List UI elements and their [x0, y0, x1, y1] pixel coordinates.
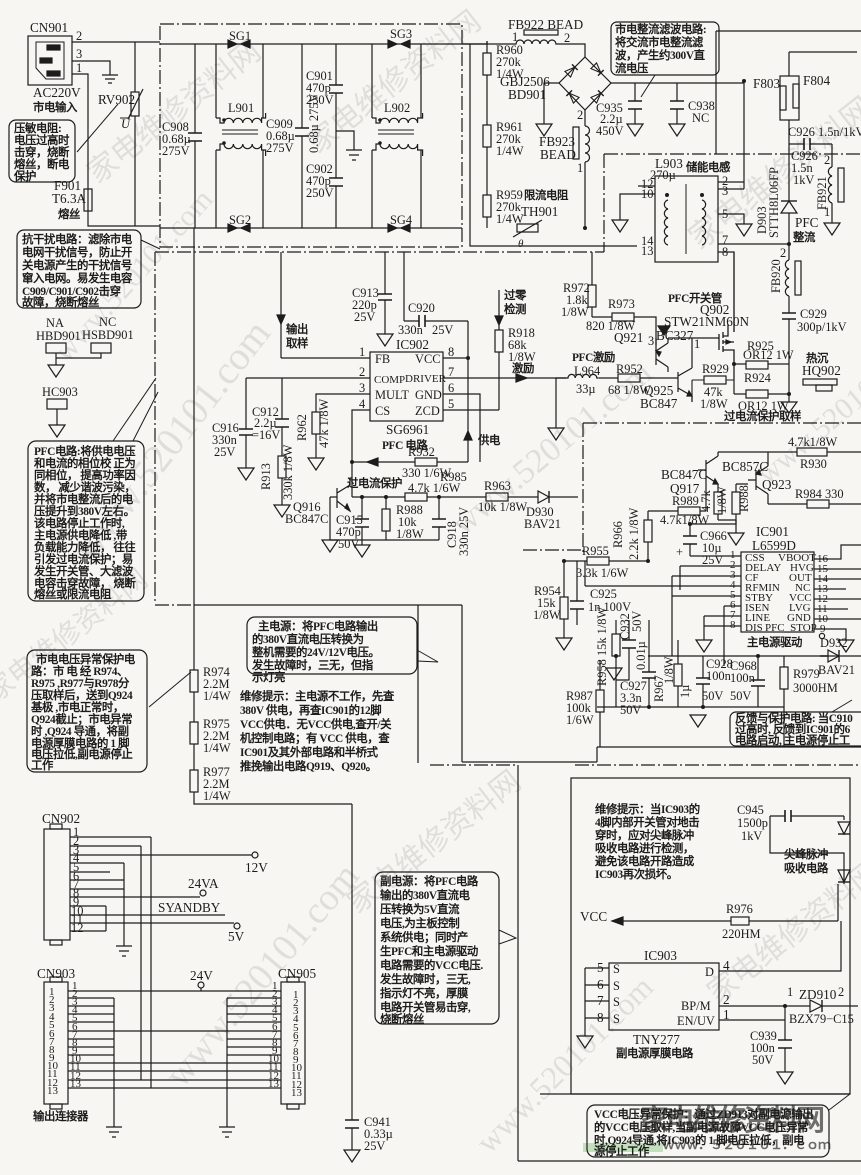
resistor R973	[586, 297, 656, 345]
svg-text:R963: R963	[484, 479, 511, 493]
svg-text:取样: 取样	[286, 336, 309, 350]
svg-text:25V: 25V	[364, 1139, 385, 1153]
svg-text:和电流的相位校 正为: 和电流的相位校 正为	[33, 456, 135, 470]
capacitor C928	[696, 656, 733, 707]
svg-text:C920: C920	[408, 301, 435, 315]
resistor R962	[295, 398, 331, 470]
svg-text:5V: 5V	[228, 929, 245, 944]
CN905 pin wires	[227, 998, 281, 1055]
svg-text:负载能力降低， 往往: 负载能力降低， 往往	[34, 540, 136, 554]
callout 反馈与保护电路	[730, 700, 861, 747]
svg-text:发生开关管、大滤波: 发生开关管、大滤波	[33, 564, 134, 578]
ground arrow pin10	[612, 220, 628, 232]
transistor Q925	[640, 362, 692, 411]
resistor R972	[561, 252, 596, 319]
transistor Q923	[722, 452, 792, 504]
svg-text:BD901: BD901	[508, 87, 546, 102]
svg-text:50V: 50V	[620, 703, 641, 717]
svg-text:25V: 25V	[702, 553, 723, 567]
svg-text:L6599D: L6599D	[752, 538, 796, 553]
svg-text:13: 13	[641, 244, 653, 258]
svg-text:R966: R966	[611, 521, 625, 548]
connector CN902	[42, 811, 80, 945]
svg-text:保护: 保护	[13, 169, 36, 183]
svg-text:HSBD901: HSBD901	[82, 328, 134, 342]
svg-text:R929: R929	[702, 362, 729, 376]
svg-text:BAV21: BAV21	[818, 663, 855, 677]
svg-text:25V: 25V	[354, 310, 375, 324]
svg-text:推挽输出电路Q919、Q920。: 推挽输出电路Q919、Q920。	[240, 759, 377, 773]
svg-text:VCC供电．无VCC供电,查开/关: VCC供电．无VCC供电,查开/关	[240, 717, 392, 731]
callout VCC电压异常保护	[587, 1094, 850, 1158]
diode D932	[818, 636, 855, 677]
transistor Q916	[285, 476, 402, 526]
CN903 pin wires	[68, 980, 281, 1127]
svg-text:时 ,Q924 导通，将副: 时 ,Q924 导通，将副	[31, 724, 129, 738]
svg-text:IC903再次损坏。: IC903再次损坏。	[595, 867, 678, 881]
wire VCC pin8	[443, 357, 468, 359]
svg-text:主电源供电降低 ,带: 主电源供电降低 ,带	[34, 528, 128, 542]
resistor R984	[768, 487, 861, 508]
thermistor TH901	[513, 188, 569, 250]
svg-text:PFC激励: PFC激励	[572, 350, 615, 364]
ground arrow small q921	[658, 326, 670, 335]
node HC903	[42, 385, 78, 437]
svg-text:1/8W: 1/8W	[700, 397, 728, 411]
svg-text:3: 3	[359, 381, 365, 395]
svg-text:1/8W: 1/8W	[662, 656, 676, 684]
wire bottom bus	[160, 227, 462, 229]
resistor R966	[611, 507, 652, 561]
svg-text:DRIVER: DRIVER	[405, 373, 447, 385]
svg-text:8: 8	[730, 619, 736, 631]
capacitor C915	[336, 497, 370, 557]
svg-text:F804: F804	[803, 73, 831, 88]
svg-text:1: 1	[824, 205, 830, 219]
svg-text:CN903: CN903	[37, 966, 76, 981]
svg-text:4.7k1/8W: 4.7k1/8W	[660, 513, 710, 527]
svg-text:25V: 25V	[214, 445, 235, 459]
svg-text:3.3k 1/6W: 3.3k 1/6W	[576, 566, 629, 580]
svg-text:副电源厚膜电路: 副电源厚膜电路	[616, 1046, 694, 1060]
fuse F803 F804	[753, 73, 831, 120]
resistor R929	[692, 362, 734, 411]
svg-text:10k 1/8W: 10k 1/8W	[478, 500, 528, 514]
svg-text:R989: R989	[672, 494, 699, 508]
capacitor C925	[570, 561, 631, 625]
resistor R959	[483, 188, 524, 228]
node 24VA	[200, 890, 206, 896]
svg-text:OR12 1W: OR12 1W	[743, 348, 794, 362]
svg-text:θ: θ	[518, 238, 524, 250]
svg-text:Q923: Q923	[762, 477, 792, 492]
svg-text:1: 1	[787, 985, 793, 999]
svg-text:50V: 50V	[702, 689, 723, 703]
svg-text:ZCD: ZCD	[415, 404, 440, 418]
svg-text:7: 7	[448, 365, 454, 379]
svg-text:BAV21: BAV21	[524, 517, 561, 531]
svg-text:24VA: 24VA	[188, 876, 219, 891]
ferrite bead FB920	[769, 244, 801, 310]
note 维修提示 main	[240, 689, 395, 773]
resistor R954	[533, 561, 572, 650]
bridge rectifier BD901	[500, 57, 611, 110]
wire top bus to bridge	[462, 44, 585, 57]
earth ground cn905	[219, 1127, 235, 1137]
lower rail wires ic901 area	[597, 656, 861, 707]
svg-text:击穿，烧断: 击穿，烧断	[14, 145, 70, 159]
capacitor C912	[252, 378, 289, 456]
svg-text:维修提示：主电源不工作，先查: 维修提示：主电源不工作，先查	[240, 689, 395, 703]
ground arrow r958	[606, 668, 622, 680]
resistor R963	[478, 479, 528, 514]
resistor R918	[495, 325, 536, 410]
svg-text:系统供电；同时产: 系统供电；同时产	[380, 930, 468, 944]
svg-text:PFC电路:将供电电压: PFC电路:将供电电压	[34, 444, 136, 458]
svg-text:2: 2	[723, 992, 730, 1007]
svg-text:STTH8L06FP: STTH8L06FP	[767, 167, 781, 238]
node 12V	[252, 852, 258, 858]
resistor R974	[190, 228, 231, 722]
svg-text:整机需要的24V/12V电压。: 整机需要的24V/12V电压。	[251, 645, 380, 659]
svg-text:过高时, 反馈到IC901的6: 过高时, 反馈到IC901的6	[735, 722, 851, 736]
svg-text:源停止工作: 源停止工作	[593, 1144, 650, 1158]
wire DRIVER pin7	[443, 377, 566, 379]
svg-text:47k 1/8W: 47k 1/8W	[317, 398, 331, 448]
svg-text:CS: CS	[375, 404, 390, 418]
svg-text:S: S	[613, 1012, 620, 1026]
resistor R988b	[732, 484, 751, 524]
ferrite bead FB923	[539, 108, 590, 228]
svg-text:1/8W: 1/8W	[508, 350, 536, 364]
svg-text:路：市 电 经 R974、: 路：市 电 经 R974、	[31, 664, 128, 678]
heatsink HQ902	[802, 351, 841, 391]
spark gap SG1	[228, 29, 251, 48]
node 5V	[234, 923, 240, 929]
svg-text:主电源驱动: 主电源驱动	[747, 635, 802, 649]
svg-text:R955: R955	[582, 544, 609, 558]
spark gap SG2	[228, 213, 251, 232]
svg-text:烧断熔丝: 烧断熔丝	[380, 1012, 425, 1026]
svg-text:ｗｗｗ．５２０１０１．ｃｏｍ: ｗｗｗ．５２０１０１．ｃｏｍ	[662, 1137, 831, 1152]
storage inductor L903	[641, 156, 731, 262]
svg-text:1kV: 1kV	[741, 829, 762, 843]
svg-text:C909/C901/C902击穿: C909/C901/C902击穿	[22, 284, 121, 298]
svg-text:储能电感: 储能电感	[686, 160, 731, 174]
svg-text:穿时，应对尖峰脉冲: 穿时，应对尖峰脉冲	[595, 828, 694, 842]
fuse F901	[52, 178, 92, 221]
svg-text:HQ902: HQ902	[802, 363, 841, 378]
svg-text:1/6W: 1/6W	[566, 713, 594, 727]
ground arrow pin5	[736, 224, 752, 236]
wire CS pin4	[352, 410, 370, 497]
ground arrow ic901 pin8	[696, 616, 712, 652]
IC903 pin wires	[585, 968, 609, 1036]
junction dots	[701, 705, 705, 709]
callout 市电电压异常保护电路	[27, 650, 191, 772]
svg-text:流电压: 流电压	[615, 61, 649, 75]
svg-text:R979: R979	[793, 667, 820, 681]
capacitor C932	[616, 611, 648, 680]
resistor R977	[190, 765, 352, 804]
svg-text:S: S	[613, 962, 620, 976]
svg-text:CN905: CN905	[278, 966, 317, 981]
svg-text:4.7k 1/6W: 4.7k 1/6W	[408, 481, 461, 495]
resistor R979	[780, 656, 838, 747]
svg-text:4.7k1/8W: 4.7k1/8W	[788, 435, 838, 449]
wire second ac line	[470, 44, 637, 246]
svg-text:275V: 275V	[266, 141, 294, 155]
svg-text:COMP: COMP	[374, 374, 405, 386]
resistor R958	[595, 607, 620, 707]
svg-text:13: 13	[47, 1085, 59, 1097]
svg-text:发生故障时，三无，但指: 发生故障时，三无，但指	[251, 658, 374, 672]
svg-text:供电: 供电	[477, 433, 501, 447]
svg-text:330n: 330n	[398, 323, 423, 337]
svg-text:电源厚膜电路的 1 脚: 电源厚膜电路的 1 脚	[31, 736, 129, 750]
resistor 4.7k vertical	[699, 486, 729, 520]
wire top rail q917	[718, 451, 861, 453]
svg-text:S: S	[613, 979, 620, 993]
svg-text:1kV: 1kV	[793, 173, 814, 187]
svg-text:副电源：将PFC电路: 副电源：将PFC电路	[380, 874, 479, 888]
svg-text:激励: 激励	[512, 361, 534, 375]
wire bridge minus down	[544, 83, 559, 124]
svg-text:引发过电流保护；易: 引发过电流保护；易	[34, 552, 133, 566]
svg-text:1: 1	[577, 161, 583, 175]
capacitor C908	[162, 44, 202, 228]
svg-text:避免该电路开路造成: 避免该电路开路造成	[595, 854, 695, 868]
capacitor C938	[669, 83, 715, 136]
svg-text:R975 ,R977与R978分: R975 ,R977与R978分	[31, 676, 130, 690]
svg-text:输出: 输出	[286, 322, 308, 336]
svg-text:输出连接器: 输出连接器	[33, 1109, 89, 1123]
svg-text:熔丝: 熔丝	[58, 207, 81, 221]
svg-text:故障，烧断熔丝: 故障，烧断熔丝	[22, 295, 100, 309]
inductor L901	[216, 44, 266, 228]
svg-text:HBD901: HBD901	[36, 329, 81, 343]
svg-text:0.01µ: 0.01µ	[634, 641, 648, 670]
svg-text:300p/1kV: 300p/1kV	[797, 320, 847, 334]
capacitor C926	[788, 125, 861, 187]
svg-text:将交流市电整流滤: 将交流市电整流滤	[615, 35, 704, 49]
capacitor C901	[306, 44, 343, 131]
svg-text:12V: 12V	[245, 860, 268, 875]
resistor R989	[648, 480, 710, 527]
svg-text:SG6961: SG6961	[386, 422, 429, 437]
svg-text:5: 5	[448, 397, 454, 411]
svg-text:C926 1.5n/1kV: C926 1.5n/1kV	[788, 125, 861, 139]
svg-text:BC847: BC847	[640, 396, 678, 411]
callout 副电源	[375, 872, 516, 1026]
wire bottom ac	[88, 211, 160, 226]
svg-text:IC902: IC902	[396, 337, 429, 352]
svg-text:1/8W: 1/8W	[561, 305, 589, 319]
svg-text:吸收电路进行检测，: 吸收电路进行检测，	[595, 841, 694, 855]
EMI filter box	[160, 24, 462, 247]
svg-text:BEAD: BEAD	[540, 147, 576, 162]
svg-text:T6.3A: T6.3A	[52, 191, 87, 206]
ground wire under q916	[330, 497, 439, 540]
spark gap SG4	[388, 213, 412, 232]
svg-text:+: +	[676, 545, 683, 559]
svg-text:L901: L901	[228, 101, 254, 115]
wire ZCD pin5	[443, 409, 499, 411]
capacitor C968	[730, 656, 765, 707]
svg-text:330k 1/8W: 330k 1/8W	[281, 444, 295, 500]
svg-text:380V 供电，再查IC901的12脚: 380V 供电，再查IC901的12脚	[240, 703, 381, 717]
spark gap SG3	[388, 27, 412, 48]
ground arrow NA	[48, 365, 64, 377]
svg-text:NC: NC	[692, 111, 709, 125]
ground mid EMI	[336, 131, 362, 160]
svg-text:1/4W: 1/4W	[496, 144, 524, 158]
svg-text:EN/UV: EN/UV	[677, 1014, 715, 1028]
connector CN901	[28, 20, 81, 114]
svg-text:25V: 25V	[432, 323, 453, 337]
svg-text:C929: C929	[800, 307, 827, 321]
svg-text:指示灯不亮，厚膜: 指示灯不亮，厚膜	[380, 986, 469, 1000]
svg-text:反馈与保护电路: 当C910: 反馈与保护电路: 当C910	[735, 711, 853, 725]
svg-text:生PFC和主电源驱动: 生PFC和主电源驱动	[380, 944, 478, 958]
svg-text:工作: 工作	[31, 758, 54, 772]
svg-text:尖峰脉冲: 尖峰脉冲	[784, 847, 828, 861]
wire L903 pin7	[718, 243, 789, 245]
svg-text:家电维修资料网: 家电维修资料网	[640, 1103, 824, 1137]
svg-text:STW21NM60N: STW21NM60N	[664, 314, 749, 329]
svg-text:D932: D932	[820, 636, 848, 650]
svg-text:主电源：将PFC电路输出: 主电源：将PFC电路输出	[258, 619, 378, 633]
svg-text:BC847C: BC847C	[661, 467, 707, 482]
resistor R988	[382, 497, 424, 541]
node NC HSBD901	[56, 315, 134, 358]
ground earth	[102, 75, 118, 83]
svg-text:的380V直流电压转换为: 的380V直流电压转换为	[252, 632, 364, 646]
resistor R985	[405, 470, 467, 501]
callout 市电整流滤波电路	[611, 22, 719, 97]
node 供电	[464, 321, 501, 462]
wire drain to fb920	[733, 252, 735, 332]
svg-text:1: 1	[76, 61, 82, 75]
svg-text:市电电压异常保护电: 市电电压异常保护电	[36, 652, 136, 666]
svg-text:维修提示：当IC903的: 维修提示：当IC903的	[595, 802, 700, 816]
callout PFC电路	[28, 378, 158, 601]
svg-text:S: S	[613, 995, 620, 1009]
wire L903 pin8	[718, 252, 734, 332]
capacitor C920	[398, 252, 468, 337]
svg-text:C925: C925	[590, 587, 617, 601]
svg-text:FB: FB	[375, 352, 390, 366]
svg-text:1: 1	[359, 345, 365, 359]
svg-text:3: 3	[722, 184, 728, 198]
svg-text:330n 25V: 330n 25V	[457, 507, 471, 556]
connector CN903	[37, 966, 76, 1109]
svg-text:R958 15k 1/8W: R958 15k 1/8W	[595, 607, 609, 686]
svg-text:机控制电路；有 VCC 供电，查: 机控制电路；有 VCC 供电，查	[240, 731, 390, 745]
resistor R987	[566, 660, 604, 747]
svg-text:窜入电网。易发生电容: 窜入电网。易发生电容	[22, 271, 133, 285]
resistor R952	[599, 362, 660, 397]
svg-text:R988: R988	[737, 485, 751, 512]
sub block boundary	[430, 764, 861, 766]
capacitor C918	[432, 497, 471, 556]
svg-text:250V: 250V	[306, 93, 334, 107]
svg-text:6: 6	[448, 381, 454, 395]
wire GND pin6	[443, 394, 480, 462]
svg-text:50V: 50V	[630, 611, 644, 632]
svg-text:并将市电整流后的电: 并将市电整流后的电	[34, 492, 134, 506]
svg-text:R913: R913	[259, 463, 273, 490]
svg-text:2: 2	[76, 29, 82, 43]
green mark	[583, 1143, 663, 1152]
resistor R932	[352, 445, 468, 480]
svg-text:过电流保护取样: 过电流保护取样	[724, 409, 802, 423]
svg-text:DIS: DIS	[745, 622, 763, 634]
svg-text:1/4W: 1/4W	[203, 741, 231, 755]
IC901 left pin wires	[585, 556, 741, 626]
svg-text:熔丝或限流电阻: 熔丝或限流电阻	[34, 587, 112, 601]
node 24V	[198, 982, 204, 988]
svg-text:www.520101.com: www.520101.com	[157, 855, 368, 1095]
wire base q923 bus	[690, 484, 748, 524]
wire top right bus	[716, 31, 861, 154]
callout 压敏电阻	[9, 104, 118, 183]
resistor R955	[564, 544, 648, 580]
svg-text:1/4W: 1/4W	[203, 689, 231, 703]
svg-text:1: 1	[694, 337, 700, 351]
svg-text:R962: R962	[295, 414, 309, 441]
resistor R913	[259, 444, 295, 517]
svg-text:2: 2	[780, 246, 786, 260]
resistor R976	[722, 902, 761, 941]
svg-text:压敏电阻:: 压敏电阻:	[14, 121, 61, 135]
svg-text:限流电阻: 限流电阻	[524, 188, 569, 202]
svg-text:2: 2	[824, 153, 830, 167]
svg-text:100n: 100n	[706, 669, 731, 683]
IC901 right pin wires	[814, 545, 861, 640]
svg-text:2: 2	[564, 31, 570, 45]
svg-text:2: 2	[359, 365, 365, 379]
resistor R960	[483, 41, 524, 125]
svg-text:IC901: IC901	[756, 524, 789, 539]
capacitor C902	[306, 131, 343, 228]
PFC lower boundary dash-dot	[523, 423, 861, 553]
svg-text:关电源产生的干扰信号: 关电源产生的干扰信号	[22, 258, 132, 272]
svg-text:1µ: 1µ	[678, 685, 692, 698]
capacitor C929	[782, 307, 847, 364]
svg-text:450V: 450V	[596, 124, 624, 138]
svg-text:PFC_STOP: PFC_STOP	[765, 622, 817, 634]
svg-text:1/8W: 1/8W	[396, 527, 424, 541]
resistor R975	[190, 717, 231, 770]
svg-text:SYANDBY: SYANDBY	[158, 900, 221, 915]
resistor R925	[734, 339, 794, 369]
svg-text:电路开关管易击穿,: 电路开关管易击穿,	[380, 1000, 471, 1014]
svg-text:电压过高时: 电压过高时	[14, 133, 70, 147]
transistor Q921	[614, 328, 700, 372]
svg-text:发生故障时，三无,: 发生故障时，三无,	[379, 972, 471, 986]
capacitor C945	[737, 803, 844, 843]
svg-text:R930: R930	[800, 457, 827, 471]
wire FB pin1	[281, 357, 370, 359]
junction dots	[583, 226, 587, 230]
svg-text:U: U	[121, 117, 131, 131]
diode snubber2	[838, 870, 850, 882]
svg-text:压提升到380V左右。: 压提升到380V左右。	[34, 504, 135, 518]
ground arrow c966	[728, 524, 744, 545]
svg-text:MULT: MULT	[375, 388, 409, 402]
svg-text:4: 4	[359, 397, 365, 411]
